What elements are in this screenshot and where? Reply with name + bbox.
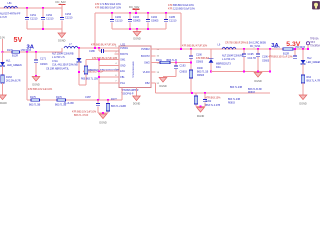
wire cap bank1 bottom rail — [27, 28, 62, 30]
wire bank2 top rail — [95, 12, 181, 14]
LED HL2 — [301, 60, 306, 64]
node junction bank2 feed — [94, 47, 96, 49]
svg-text:R200: R200 — [197, 67, 203, 70]
svg-text:EN1: EN1 — [120, 71, 125, 73]
inductor L7 — [64, 46, 78, 48]
svg-text:B63.7L.23B: B63.7L.23B — [230, 87, 242, 89]
node junction bank2 bottom 1 — [129, 28, 131, 30]
wire FB1 riser — [121, 88, 123, 101]
wire C185 drop — [165, 13, 167, 20]
wire C195 drop — [243, 49, 245, 54]
wire port riser — [307, 45, 309, 49]
ground bank1 — [58, 33, 66, 38]
svg-text:B63.7L.5B: B63.7L.5B — [29, 103, 41, 106]
node junction bank2 top C185 — [165, 12, 167, 14]
svg-text:R177: R177 — [111, 98, 117, 101]
capacitor C183 — [128, 19, 132, 21]
svg-text:L81: L81 — [8, 2, 13, 5]
svg-text:5V: 5V — [14, 36, 23, 44]
svg-text:C152: C152 — [46, 14, 53, 17]
node junction bottom gnd — [102, 112, 104, 114]
wire stub EN1 — [99, 64, 119, 66]
node junction bank2 top C182 — [111, 12, 113, 14]
wire pin bus — [98, 60, 100, 100]
capacitor C184 — [146, 19, 150, 21]
resistor R163 — [1, 75, 4, 83]
wire divider drop — [190, 49, 192, 56]
resistor R175 — [31, 99, 40, 102]
wire divider2 join — [196, 106, 205, 108]
svg-text:TL.2L.BR: TL.2L.BR — [64, 103, 74, 105]
node junction bus SW1 — [98, 59, 100, 61]
svg-text:DGND: DGND — [254, 80, 262, 83]
svg-text:C0805: C0805 — [133, 20, 141, 23]
svg-text:C190: C190 — [196, 53, 202, 56]
wire C184 drop — [147, 13, 149, 20]
svg-text:R0603: R0603 — [197, 74, 205, 77]
capacitor C171 — [34, 59, 38, 61]
wire diode top — [78, 48, 80, 58]
svg-text:C0805: C0805 — [151, 20, 159, 23]
capacitor C187 — [96, 103, 100, 105]
svg-text:47R 171.B0V.10uF 10%: 47R 171.B0V.10uF 10% — [95, 3, 122, 6]
svg-text:C185: C185 — [169, 16, 176, 19]
svg-text:C1210: C1210 — [46, 18, 54, 21]
node junction R191 out — [175, 62, 177, 64]
wire output rail — [156, 48, 309, 50]
ground divider2 — [197, 108, 205, 113]
capacitor C195 — [242, 53, 246, 55]
svg-text:17R,5R,B: 17R,5R,B — [21, 49, 32, 52]
svg-text:C151: C151 — [30, 14, 37, 17]
node junction diode mid — [78, 71, 80, 73]
svg-text:TPS65261RHBR: TPS65261RHBR — [133, 61, 135, 78]
capacitor C196 — [256, 53, 260, 55]
wire R177 drop — [107, 100, 109, 104]
wire R60 bottom — [85, 74, 87, 85]
wire bottom chain — [27, 99, 122, 101]
svg-text:47R.B63.10V.1uF.10%: 47R.B63.10V.1uF.10% — [28, 88, 53, 91]
diode D7 — [77, 58, 82, 62]
wire feedback drop x27 — [26, 52, 28, 100]
capacitor C198 — [203, 99, 207, 101]
svg-text:B63.7L.A.7R: B63.7L.A.7R — [307, 80, 320, 83]
svg-text:47R B63.B0V.10uF 10%: 47R B63.B0V.10uF 10% — [95, 7, 122, 10]
wire R60 top — [85, 60, 87, 66]
svg-text:17R,5R,B: 17R,5R,B — [295, 46, 306, 49]
wire C171 drop — [35, 52, 37, 60]
node junction rail divider — [190, 48, 192, 50]
svg-text:B63.7L.23B: B63.7L.23B — [228, 99, 240, 101]
wire HL2 drop — [302, 49, 304, 60]
wire fb run — [156, 92, 271, 94]
node junction input — [2, 51, 4, 53]
svg-text:DGND: DGND — [159, 85, 167, 88]
svg-text:T5V3R5A: T5V3R5A — [310, 45, 320, 48]
wire bank2 bottom rail — [112, 28, 166, 30]
svg-text:PVDD1: PVDD1 — [120, 48, 128, 50]
wire HL1 to R163 — [2, 66, 4, 75]
svg-text:LED_GREEN: LED_GREEN — [7, 64, 22, 67]
svg-text:LED_GREEN: LED_GREEN — [307, 61, 320, 64]
resistor R191 — [160, 61, 170, 64]
wire C187 drop — [97, 100, 99, 104]
node junction outgnd 258 — [257, 71, 259, 73]
wire diode bottom — [78, 62, 80, 85]
node junction C197 — [294, 48, 296, 50]
svg-text:TP5V3A: TP5V3A — [310, 37, 319, 40]
svg-text:B63.7L.2.E3B: B63.7L.2.E3B — [111, 105, 126, 108]
svg-text:DC_5V3A: DC_5V3A — [250, 45, 261, 48]
svg-text:SW1: SW1 — [120, 60, 126, 62]
node junction divider2 — [200, 106, 202, 108]
node junction bus 77 — [98, 76, 100, 78]
node junction top rail 2 — [42, 7, 44, 9]
node junction D4 — [210, 71, 212, 73]
svg-text:FB2: FB2 — [145, 81, 150, 85]
ground bank2 — [133, 32, 141, 37]
svg-text:L9: L9 — [218, 44, 221, 47]
svg-text:FB1: FB1 — [120, 77, 125, 79]
svg-text:C153: C153 — [65, 13, 72, 16]
ground C193 — [159, 78, 167, 83]
node junction bank2 bottom 3 — [136, 28, 138, 30]
svg-text:13: 13 — [157, 72, 160, 74]
capacitor C190 — [189, 55, 193, 57]
wire C183 drop — [129, 13, 131, 20]
node junction C171 bottom — [35, 75, 37, 77]
svg-text:R64: R64 — [307, 76, 312, 79]
op-amp U12 left pins — [115, 47, 120, 49]
wire boot v — [98, 48, 100, 51]
svg-text:7: 7 — [115, 81, 117, 83]
op-amp U12 right pins — [151, 48, 156, 50]
ground C171 — [32, 77, 40, 82]
ground output caps — [254, 73, 262, 78]
wire C196 drop — [257, 49, 259, 54]
svg-text:B63.7L.B.3R: B63.7L.B.3R — [248, 88, 262, 91]
svg-text:B63.7L.1B: B63.7L.1B — [197, 71, 209, 74]
svg-text:C183: C183 — [133, 16, 140, 19]
svg-text:DGND: DGND — [58, 40, 66, 43]
wire C193 drop — [175, 63, 177, 66]
svg-text:C184: C184 — [151, 16, 158, 19]
svg-text:DC_5AV: DC_5AV — [56, 0, 66, 4]
wire boot h — [104, 50, 119, 52]
resistor R171 inline — [283, 48, 293, 51]
svg-text:C0603: C0603 — [262, 59, 270, 62]
svg-text:MBR0520LT3: MBR0520LT3 — [216, 62, 231, 65]
wire R202 drop — [195, 93, 197, 96]
op-amp U12 outline — [119, 46, 151, 88]
capacitor C186 series — [100, 49, 102, 53]
wire main riser — [61, 48, 63, 52]
node junction port — [307, 48, 309, 50]
node junction top rail 1 — [26, 7, 28, 9]
svg-text:47R.B63.BA: 47R.B63.BA — [196, 57, 210, 60]
svg-text:4.7uH: 4.7uH — [0, 16, 7, 19]
ground IC — [133, 96, 141, 101]
icon bulb — [312, 1, 319, 9]
wire out gnd rail — [211, 71, 270, 73]
svg-text:C195: C195 — [248, 53, 255, 56]
svg-text:C0603: C0603 — [196, 61, 204, 64]
svg-text:C196 47R.B63.10V.1uF.10%: C196 47R.B63.10V.1uF.10% — [262, 55, 293, 58]
resistor R60 — [84, 66, 87, 74]
svg-text:HL2: HL2 — [307, 57, 312, 60]
svg-text:B12R: B12R — [12, 54, 18, 57]
wire stub FB1b — [99, 76, 119, 78]
wire C193 gnd run — [163, 76, 176, 78]
svg-text:C182: C182 — [115, 16, 122, 19]
resistor R64 — [301, 75, 304, 83]
svg-text:C1210: C1210 — [30, 18, 38, 21]
wire R191 — [156, 62, 192, 64]
resistor R200 — [189, 70, 192, 78]
svg-text:L7: L7 — [69, 43, 72, 46]
svg-text:R0603: R0603 — [248, 92, 255, 94]
svg-text:PG1: PG1 — [120, 83, 125, 85]
svg-text:B12R: B12R — [283, 52, 289, 55]
node junction out 270 — [269, 48, 271, 50]
svg-text:C NA: C NA — [52, 60, 58, 63]
node junction out 258 — [257, 48, 259, 50]
wire fb stub — [155, 83, 157, 93]
wire input left vertical — [2, 39, 4, 52]
wire diode D4 bottom — [210, 63, 212, 72]
node junction bottom 98 — [97, 99, 99, 101]
svg-text:R0603: R0603 — [228, 103, 235, 105]
node junction bottom 108 — [107, 99, 109, 101]
node junction bank2 tbar — [135, 12, 137, 14]
svg-text:SW2: SW2 — [144, 61, 150, 65]
wire L7 to IC — [78, 47, 119, 49]
svg-text:47R.B63.BU.47UF.10%: 47R.B63.BU.47UF.10% — [182, 44, 208, 47]
node junction fb 205 — [204, 92, 206, 94]
svg-text:47R.B63.10V.1uF.10%: 47R.B63.10V.1uF.10% — [72, 110, 97, 113]
wire stub SW1 — [86, 59, 119, 61]
node junction fb 192 — [191, 92, 193, 94]
node junction divider r191 — [190, 62, 192, 64]
wire fb cap drop — [269, 49, 271, 72]
capacitor C197 — [294, 49, 296, 56]
node junction bus 71 — [98, 70, 100, 72]
node junction diode branch — [78, 47, 80, 49]
wire bank2 right drop — [180, 13, 182, 49]
wire main input — [3, 51, 63, 53]
wire cap C153 drop — [61, 8, 63, 18]
capacitor C193 — [174, 65, 178, 67]
svg-text:C1210: C1210 — [65, 17, 73, 20]
svg-text:5.0V: 5.0V — [0, 36, 5, 39]
svg-text:R60.B63.7L.15B: R60.B63.7L.15B — [81, 79, 98, 81]
svg-text:C0603: C0603 — [40, 63, 48, 66]
svg-text:C186: C186 — [89, 50, 95, 53]
node junction rail bank2 — [180, 48, 182, 50]
svg-text:C8.10R.NBRGU4T3L: C8.10R.NBRGU4T3L — [46, 68, 70, 71]
resistor R177 — [106, 104, 109, 112]
wire bottom join — [98, 112, 108, 114]
svg-text:L 12.50 U.S: L 12.50 U.S — [52, 56, 65, 59]
svg-text:HL1: HL1 — [6, 60, 11, 63]
svg-text:DGND: DGND — [299, 103, 307, 106]
svg-text:47R.B63.10%: 47R.B63.10% — [206, 96, 222, 99]
node junction gndrail 270 — [269, 71, 271, 73]
svg-text:PVDD2: PVDD2 — [141, 47, 150, 51]
wire diode corner — [79, 84, 86, 86]
svg-text:B63.7L.47UF: B63.7L.47UF — [74, 114, 89, 117]
wire IC gnd stub — [136, 88, 138, 97]
wire stub FB1a — [99, 70, 119, 72]
ground HL2 — [299, 95, 307, 100]
svg-text:47R.1210.B0V.10uF.10%: 47R.1210.B0V.10uF.10% — [168, 7, 196, 10]
capacitor C185 — [164, 19, 168, 21]
svg-text:B63.7L.2.27B: B63.7L.2.27B — [206, 104, 221, 107]
wire cap C152 drop — [42, 8, 44, 18]
resistor R170 inline — [12, 51, 20, 54]
wire input rail top-left — [0, 7, 62, 9]
svg-text:D4A: D4A — [216, 66, 221, 69]
svg-text:C04.7R: C04.7R — [248, 57, 257, 60]
wire C198 drop — [204, 93, 206, 100]
svg-text:DGND: DGND — [32, 84, 40, 87]
svg-text:C193: C193 — [180, 64, 187, 67]
resistor R202 — [194, 96, 197, 104]
svg-text:R163: R163 — [6, 76, 12, 79]
node junction out 303 — [302, 48, 304, 50]
svg-text:NLT.1504F.22NURB: NLT.1504F.22NURB — [52, 53, 74, 56]
svg-text:DGND: DGND — [197, 115, 205, 118]
svg-text:2K2,5%,B,7R: 2K2,5%,B,7R — [6, 79, 21, 82]
node junction outgnd 244 — [243, 71, 245, 73]
svg-text:DGND: DGND — [99, 122, 107, 125]
wire R64 to gnd — [302, 83, 304, 95]
svg-text:DC_5AV: DC_5AV — [129, 5, 139, 9]
svg-text:C1210: C1210 — [115, 20, 123, 23]
diode D4 — [209, 58, 214, 60]
ground bottom — [99, 114, 107, 119]
svg-text:C0603: C0603 — [180, 70, 188, 73]
wire R163 to gnd — [2, 83, 4, 95]
wire HL1 drop — [2, 52, 4, 62]
node junction bank2 bottom 2 — [147, 28, 149, 30]
inductor L9 — [222, 47, 236, 49]
wire gnd stub bank1 — [61, 29, 63, 33]
svg-text:R202: R202 — [206, 100, 212, 103]
svg-text:C187: C187 — [85, 96, 91, 99]
svg-text:15: 15 — [157, 56, 160, 58]
svg-text:DGND: DGND — [133, 38, 141, 41]
wire stub PG1 — [99, 82, 119, 84]
svg-text:R171: R171 — [274, 46, 280, 49]
inductor L81 — [4, 6, 18, 8]
LED HL1 — [0, 62, 5, 66]
svg-text:4: 4 — [115, 63, 117, 65]
svg-text:TSSOP-B-P: TSSOP-B-P — [121, 93, 134, 95]
wire bank2 left drop — [94, 13, 96, 48]
capacitor C151 — [25, 17, 29, 19]
svg-text:R176: R176 — [56, 96, 62, 99]
svg-text:VLDO: VLDO — [143, 70, 150, 74]
node junction bank2 top C184 — [147, 12, 149, 14]
svg-text:U21: U21 — [121, 42, 126, 46]
capacitor C182 — [110, 19, 114, 21]
port TP3 circle — [306, 42, 309, 45]
node junction main 36 — [35, 51, 37, 53]
svg-text:CUL.4N1.35UF.20%.NB: CUL.4N1.35UF.20%.NB — [52, 63, 78, 66]
svg-text:C1210: C1210 — [169, 20, 177, 23]
svg-text:47R.B63.BU.47UF.10%: 47R.B63.BU.47UF.10% — [91, 44, 117, 47]
svg-text:R170: R170 — [7, 49, 13, 52]
wire diode D4 drop — [210, 49, 212, 59]
resistor R176 — [57, 99, 66, 102]
node junction out 244 — [243, 48, 245, 50]
svg-text:5P.3: 5P.3 — [311, 42, 316, 44]
svg-text:DGND: DGND — [133, 102, 141, 105]
svg-text:CR.7BV.3BUF.2R%.B.5AI.12RC.B00: CR.7BV.3BUF.2R%.B.5AI.12RC.B00B — [225, 41, 266, 44]
node junction boot — [98, 47, 100, 49]
svg-text:47R.B63.B0V.10uF.10%: 47R.B63.B0V.10uF.10% — [168, 4, 195, 7]
node junction main 27 — [26, 51, 28, 53]
svg-text:DGND: DGND — [0, 103, 7, 105]
svg-text:GND: GND — [120, 65, 125, 67]
capacitor C153 — [60, 17, 64, 19]
wire cap C151 drop — [26, 8, 28, 18]
node junction bank2 top C183 — [129, 12, 131, 14]
svg-text:BOOT1: BOOT1 — [120, 54, 129, 56]
node junction bottom rail 1 — [42, 28, 44, 30]
wire HL2 to R64 — [302, 64, 304, 75]
wire gnd stub bank2 — [136, 29, 138, 32]
wire C182 drop — [111, 13, 113, 20]
svg-text:L.12.50.U.S: L.12.50.U.S — [222, 58, 235, 61]
ground HL1 — [0, 95, 6, 100]
svg-text:C171: C171 — [40, 57, 47, 60]
svg-text:R175: R175 — [30, 96, 36, 99]
capacitor C152 — [41, 17, 45, 19]
svg-text:BOOT2: BOOT2 — [141, 54, 150, 58]
svg-text:NLT.1504F.22NURB: NLT.1504F.22NURB — [222, 55, 244, 58]
